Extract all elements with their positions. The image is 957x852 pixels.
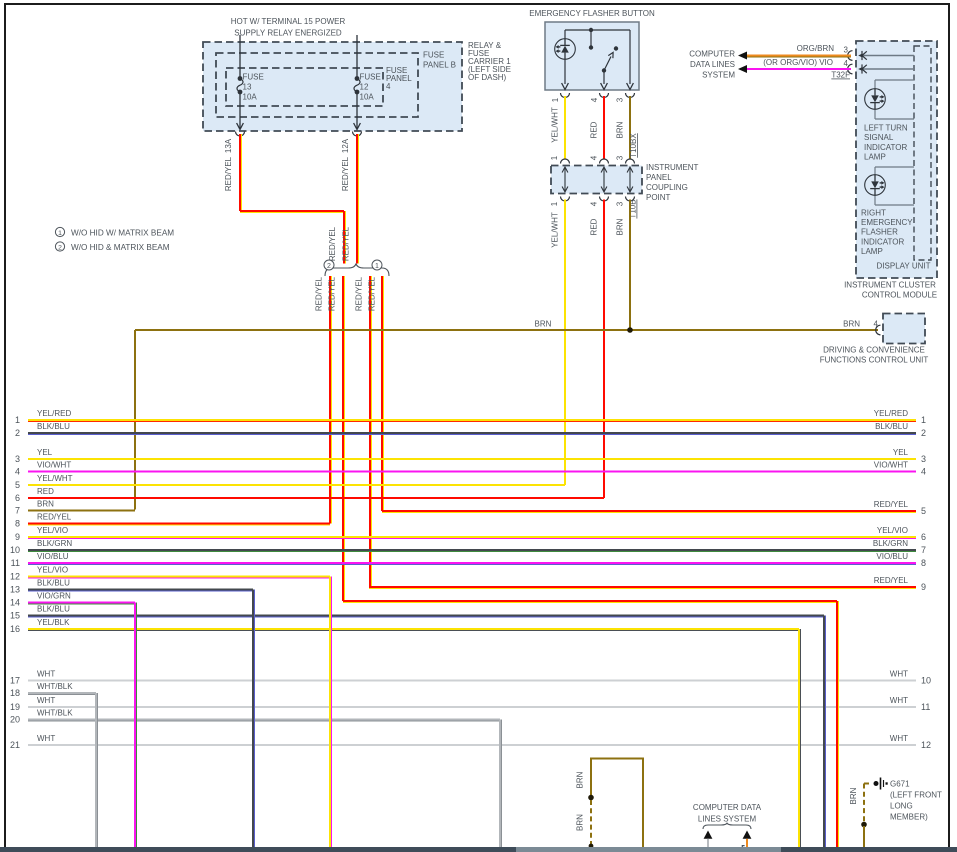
svg-text:RED/YEL: RED/YEL (355, 276, 364, 311)
wire YEL/WHT flasher upper (564, 96, 566, 159)
svg-text:BRN: BRN (616, 121, 625, 138)
svg-text:RED/YEL: RED/YEL (37, 512, 72, 521)
svg-text:17: 17 (10, 676, 20, 686)
arrow flasher pin 1 (562, 83, 569, 90)
svg-text:BRN: BRN (843, 320, 860, 329)
fuse F13 10A (238, 76, 243, 81)
connector arc 13A (236, 132, 245, 137)
arrow out of fuse box pin 13A (237, 123, 244, 130)
svg-text:10: 10 (10, 545, 20, 555)
svg-text:FUSE: FUSE (243, 73, 264, 82)
svg-text:G671: G671 (890, 780, 910, 789)
wire YEL/WHT row 5 (28, 484, 565, 486)
wire RED/YEL right row 5 (382, 510, 916, 512)
wire BRN flasher lower (629, 200, 631, 331)
svg-text:10A: 10A (360, 93, 375, 102)
connector arcs above coupling point (561, 159, 570, 164)
wire WHT row 17 (28, 680, 916, 682)
wire VIO/GRN row 14 (28, 602, 135, 604)
svg-text:BRN: BRN (576, 771, 585, 788)
svg-text:13: 13 (243, 83, 252, 92)
svg-text:7: 7 (15, 506, 20, 516)
svg-text:3: 3 (15, 454, 20, 464)
junction dot BRN at bar (589, 844, 594, 849)
svg-text:4: 4 (844, 59, 849, 68)
instrument cluster control module box (856, 41, 937, 278)
svg-text:9: 9 (921, 582, 926, 592)
svg-text:HOT W/ TERMINAL 15 POWER: HOT W/ TERMINAL 15 POWER (231, 17, 346, 26)
wire YEL row 3 (28, 458, 916, 460)
bottom bus bar (0, 847, 516, 852)
svg-text:RIGHT: RIGHT (861, 209, 886, 218)
svg-text:MEMBER): MEMBER) (890, 813, 928, 822)
wire fuse 12 output (356, 92, 358, 129)
svg-text:4: 4 (921, 467, 926, 477)
svg-text:WHT: WHT (890, 734, 908, 743)
svg-text:EMERGENCY FLASHER BUTTON: EMERGENCY FLASHER BUTTON (529, 9, 655, 18)
svg-text:YEL/VIO: YEL/VIO (37, 526, 68, 535)
flasher internal wiring (565, 29, 630, 31)
svg-text:YEL: YEL (37, 448, 53, 457)
arrow to computer data lines pin4 (738, 65, 747, 73)
wire fuse 13 output (239, 92, 241, 129)
svg-text:PANEL B: PANEL B (423, 61, 456, 70)
wire RED/YEL right row 9 (369, 586, 916, 588)
svg-text:20: 20 (10, 715, 20, 725)
wire WHT row 19 (28, 706, 916, 708)
svg-text:SUPPLY RELAY ENERGIZED: SUPPLY RELAY ENERGIZED (234, 29, 342, 38)
svg-text:YEL/WHT: YEL/WHT (551, 107, 560, 143)
svg-text:FUSE: FUSE (360, 73, 381, 82)
svg-text:3: 3 (921, 454, 926, 464)
wire YEL/RED row 1 (28, 419, 916, 421)
push button plunger (589, 28, 593, 32)
wire WHT/BLK row 20 drop (499, 720, 501, 848)
svg-text:DISPLAY UNIT: DISPLAY UNIT (877, 262, 931, 271)
svg-text:RED/YEL: RED/YEL (874, 500, 909, 509)
wire YEL/VIO row 12 (28, 576, 330, 578)
wire BRN horizontal (135, 329, 878, 331)
wire RED/YEL branch c (369, 276, 371, 587)
brace computer data lines (703, 823, 751, 829)
svg-text:YEL/RED: YEL/RED (874, 409, 908, 418)
arrow to computer data lines pin3 (738, 52, 747, 60)
svg-text:BLK/BLU: BLK/BLU (37, 578, 70, 587)
svg-text:3: 3 (616, 97, 625, 102)
svg-text:4: 4 (15, 467, 20, 477)
svg-text:RED/YEL: RED/YEL (342, 226, 351, 261)
svg-text:16: 16 (10, 624, 20, 634)
wire YEL/BLK row 16 drop (798, 629, 800, 847)
fuse F12 10A (355, 76, 360, 81)
svg-text:INDICATOR: INDICATOR (864, 143, 907, 152)
junction dot G671 wire (861, 822, 867, 828)
svg-text:10: 10 (921, 676, 931, 686)
arrow flasher pin 4 (601, 83, 608, 90)
wire BLK/BLU row 13 (28, 589, 253, 591)
svg-text:12: 12 (921, 740, 931, 750)
svg-text:EMERGENCY: EMERGENCY (861, 218, 913, 227)
wire feed fuse 12 (356, 35, 358, 78)
connector arc driving unit (876, 325, 881, 335)
svg-text:BLK/BLU: BLK/BLU (37, 604, 70, 613)
svg-text:4: 4 (386, 82, 391, 91)
arrow CAN wire right (743, 831, 752, 839)
wire feed fuse 13 (239, 35, 241, 78)
svg-text:7: 7 (921, 545, 926, 555)
wire VIO (746, 68, 851, 70)
svg-text:12A: 12A (341, 138, 350, 153)
svg-text:12: 12 (10, 572, 20, 582)
wire pin 4 to display unit (860, 68, 914, 70)
svg-text:13: 13 (10, 585, 20, 595)
wire BRN row 7 (28, 510, 135, 512)
right emergency flasher indicator lamp (865, 175, 886, 196)
svg-text:T32F: T32F (831, 71, 850, 80)
svg-text:WHT: WHT (890, 669, 908, 678)
wire RED row 6 (28, 497, 604, 499)
coupling pass-through arrow (564, 168, 566, 191)
svg-text:3: 3 (616, 155, 625, 160)
wire BLK/BLU row 13 drop (252, 590, 254, 848)
svg-text:W/O HID & MATRIX BEAM: W/O HID & MATRIX BEAM (71, 243, 170, 252)
svg-text:1: 1 (15, 415, 20, 425)
svg-text:OF DASH): OF DASH) (468, 73, 507, 82)
svg-text:YEL/BLK: YEL/BLK (37, 618, 70, 627)
terminal K (861, 64, 863, 73)
svg-text:LAMP: LAMP (864, 152, 886, 161)
svg-text:(OR ORG/VIO) VIO: (OR ORG/VIO) VIO (763, 58, 833, 67)
wire RED/YEL from fuse 12 (356, 134, 358, 264)
svg-text:6: 6 (15, 493, 20, 503)
wire WHT row 21 (28, 744, 916, 746)
legend option 2 (55, 242, 64, 251)
svg-text:19: 19 (10, 702, 20, 712)
svg-text:W/O HID W/ MATRIX BEAM: W/O HID W/ MATRIX BEAM (71, 229, 174, 238)
svg-text:DATA LINES: DATA LINES (690, 60, 735, 69)
svg-text:11: 11 (921, 702, 930, 712)
svg-text:RED/YEL: RED/YEL (874, 576, 909, 585)
wire RED/YEL branch a (329, 276, 331, 524)
flasher lamp lead (564, 60, 566, 85)
arrow flasher pin 3 (627, 83, 634, 90)
wire BRN ground solid (863, 826, 865, 847)
svg-text:VIO/WHT: VIO/WHT (874, 460, 908, 469)
fuse panel B box (216, 53, 418, 117)
svg-text:WHT/BLK: WHT/BLK (37, 682, 73, 691)
left turn lamp wiring (875, 79, 914, 81)
svg-text:2: 2 (921, 428, 926, 438)
arrow out of fuse box pin 12A (354, 123, 361, 130)
svg-text:3: 3 (616, 201, 625, 206)
svg-text:9: 9 (15, 532, 20, 542)
wire VIO/WHT row 4 (28, 471, 916, 473)
page border frame (4, 3, 950, 5)
instrument panel coupling point box (551, 166, 642, 194)
svg-text:LAMP: LAMP (861, 247, 883, 256)
svg-text:FUNCTIONS CONTROL UNIT: FUNCTIONS CONTROL UNIT (820, 356, 929, 365)
svg-text:T10BX: T10BX (629, 133, 638, 158)
wire ORG/BRN (746, 55, 851, 57)
svg-text:11: 11 (11, 558, 20, 568)
svg-text:BRN: BRN (37, 499, 54, 508)
svg-text:YEL/RED: YEL/RED (37, 409, 71, 418)
left turn signal indicator lamp (865, 89, 886, 110)
svg-text:CONTROL MODULE: CONTROL MODULE (862, 291, 937, 300)
wire BLK/BLU row 15 (28, 615, 824, 617)
svg-text:COUPLING: COUPLING (646, 183, 688, 192)
flasher switch (614, 46, 618, 50)
svg-text:VIO/BLU: VIO/BLU (876, 552, 908, 561)
svg-text:INDICATOR: INDICATOR (861, 237, 904, 246)
svg-text:YEL/VIO: YEL/VIO (37, 565, 68, 574)
svg-text:YEL/WHT: YEL/WHT (551, 212, 560, 248)
wire RED/YEL drop right (343, 600, 837, 602)
svg-text:VIO/GRN: VIO/GRN (37, 591, 71, 600)
svg-text:RED: RED (590, 218, 599, 235)
svg-text:SIGNAL: SIGNAL (864, 133, 894, 142)
svg-text:1: 1 (550, 201, 559, 206)
wire RED/YEL row 8 (28, 523, 330, 525)
svg-text:(LEFT FRONT: (LEFT FRONT (890, 791, 942, 800)
wire VIO/GRN row 14 drop (134, 603, 136, 848)
wire RED/YEL from fuse 13 (239, 134, 241, 211)
connector arc pin 4 (848, 64, 853, 74)
svg-text:BRN: BRN (535, 320, 552, 329)
svg-text:SYSTEM: SYSTEM (702, 71, 735, 80)
svg-text:POINT: POINT (646, 193, 671, 202)
svg-text:RED/YEL: RED/YEL (341, 156, 350, 191)
svg-text:YEL: YEL (893, 448, 909, 457)
svg-text:PANEL: PANEL (646, 173, 672, 182)
svg-text:4: 4 (590, 155, 599, 160)
svg-text:VIO/BLU: VIO/BLU (37, 552, 69, 561)
connector arcs flasher (561, 93, 570, 98)
svg-text:BLK/GRN: BLK/GRN (873, 539, 908, 548)
svg-text:RED/YEL: RED/YEL (328, 226, 337, 261)
wire VIO/BLU row 11 (28, 562, 916, 564)
svg-text:RED/YEL: RED/YEL (224, 156, 233, 191)
wire RED flasher upper (603, 96, 605, 159)
svg-text:12: 12 (360, 83, 369, 92)
flasher switch lead (603, 71, 605, 85)
fuse panel 4 box (226, 68, 383, 106)
option circle 2 (324, 260, 334, 270)
svg-text:WHT: WHT (37, 669, 55, 678)
svg-text:WHT: WHT (37, 734, 55, 743)
junction dot BRN loop (588, 795, 594, 801)
svg-text:3: 3 (844, 46, 849, 55)
svg-text:LEFT TURN: LEFT TURN (864, 124, 908, 133)
svg-text:BRN: BRN (849, 787, 858, 804)
svg-text:LONG: LONG (890, 802, 913, 811)
svg-text:FLASHER: FLASHER (861, 228, 898, 237)
connector step mark at bus bar (737, 846, 745, 849)
svg-text:COMPUTER DATA: COMPUTER DATA (693, 803, 762, 812)
right emergency flasher lamp wiring (875, 166, 914, 168)
svg-text:13A: 13A (224, 138, 233, 153)
svg-text:BLK/GRN: BLK/GRN (37, 539, 72, 548)
svg-text:4: 4 (590, 97, 599, 102)
svg-text:2: 2 (58, 244, 62, 251)
wire YEL/BLK row 16 (28, 628, 799, 630)
legend option 1 (55, 227, 64, 236)
wire WHT/BLK row 18 (28, 692, 96, 694)
svg-text:WHT/BLK: WHT/BLK (37, 708, 73, 717)
arrow CAN wire left (704, 831, 713, 839)
svg-text:6: 6 (921, 532, 926, 542)
wire BRN ground dashed (863, 784, 865, 824)
wire YEL/VIO row 9 (28, 536, 916, 538)
wire BLK/BLU row 15 drop (823, 616, 825, 848)
wire BLK/GRN row 10 (28, 549, 916, 551)
svg-text:VIO/WHT: VIO/WHT (37, 460, 71, 469)
svg-text:BLK/BLU: BLK/BLU (37, 422, 70, 431)
wire BLK/BLU row 2 (28, 432, 916, 434)
wire pin 3 to display unit (860, 55, 914, 57)
wire RED flasher lower (603, 200, 605, 499)
coupling pass-through arrow (629, 168, 631, 191)
svg-text:18: 18 (10, 688, 20, 698)
relay & fuse carrier 1 box (203, 42, 462, 131)
wire YEL/WHT flasher lower (564, 200, 566, 486)
svg-text:YEL/VIO: YEL/VIO (877, 526, 908, 535)
svg-text:5: 5 (15, 480, 20, 490)
coupling pass-through arrow (603, 168, 605, 191)
svg-text:INSTRUMENT: INSTRUMENT (646, 163, 699, 172)
svg-text:10A: 10A (243, 93, 258, 102)
wire WHT/BLK row 18 drop (95, 693, 97, 847)
flasher indicator lamp (555, 39, 576, 60)
wire BRN loop (591, 759, 643, 848)
svg-text:1: 1 (375, 263, 379, 270)
svg-text:BRN: BRN (616, 218, 625, 235)
emergency flasher button box (545, 22, 639, 90)
svg-text:21: 21 (10, 740, 20, 750)
svg-text:RED: RED (37, 487, 54, 496)
svg-text:INSTRUMENT CLUSTER: INSTRUMENT CLUSTER (844, 281, 936, 290)
wire YEL/VIO row 12 drop (329, 577, 331, 848)
svg-text:DRIVING & CONVENIENCE: DRIVING & CONVENIENCE (823, 346, 925, 355)
svg-text:2: 2 (327, 263, 331, 270)
wire BRN to row 7 (134, 330, 136, 510)
svg-text:1: 1 (550, 155, 559, 160)
svg-text:8: 8 (921, 558, 926, 568)
svg-text:BRN: BRN (576, 814, 585, 831)
svg-text:1: 1 (551, 97, 560, 102)
option circle 1 (372, 260, 382, 270)
connector arc pin 3 (848, 51, 853, 61)
terminal K (861, 51, 863, 60)
wire RED/YEL branch d (381, 276, 383, 511)
connector arc 12A (353, 132, 362, 137)
svg-text:LINES SYSTEM: LINES SYSTEM (698, 815, 757, 824)
display unit inner box (914, 46, 931, 260)
svg-text:WHT: WHT (890, 696, 908, 705)
svg-text:5: 5 (921, 506, 926, 516)
svg-text:14: 14 (10, 598, 20, 608)
wire BRN dashed drop (590, 800, 592, 845)
svg-text:1: 1 (58, 230, 62, 237)
svg-text:FUSE: FUSE (423, 51, 444, 60)
junction dot BRN (627, 327, 633, 333)
driving & convenience functions control unit box (883, 314, 925, 344)
svg-text:WHT: WHT (37, 696, 55, 705)
svg-text:RED/YEL: RED/YEL (328, 276, 337, 311)
svg-text:8: 8 (15, 519, 20, 529)
svg-text:RED: RED (590, 121, 599, 138)
brace wire options (325, 264, 389, 277)
wire BRN flasher upper (629, 96, 631, 159)
svg-text:RED/YEL: RED/YEL (315, 276, 324, 311)
ground G671 symbol (874, 781, 879, 786)
svg-text:COMPUTER: COMPUTER (689, 50, 735, 59)
svg-text:15: 15 (10, 611, 20, 621)
svg-text:YEL/WHT: YEL/WHT (37, 474, 73, 483)
svg-text:ORG/BRN: ORG/BRN (797, 44, 835, 53)
svg-text:4: 4 (590, 201, 599, 206)
connector arcs below coupling point (561, 197, 570, 202)
svg-text:BLK/BLU: BLK/BLU (875, 422, 908, 431)
wire RED/YEL branch b (342, 276, 344, 601)
wire WHT/BLK row 20 (28, 719, 500, 721)
svg-text:1: 1 (921, 415, 926, 425)
svg-text:RED/YEL: RED/YEL (368, 276, 377, 311)
svg-text:2: 2 (15, 428, 20, 438)
